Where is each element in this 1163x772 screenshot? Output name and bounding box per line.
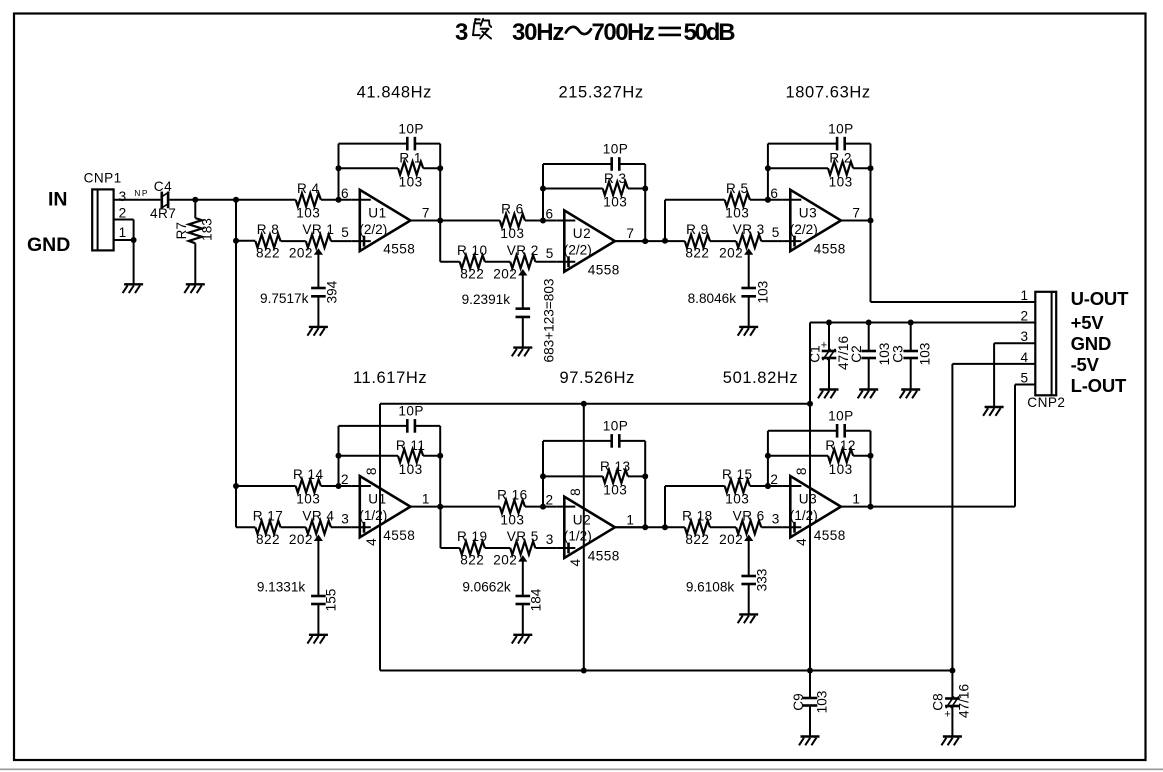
svg-text:4558: 4558 <box>383 242 415 257</box>
svg-text:R 12: R 12 <box>825 438 856 453</box>
svg-text:822: 822 <box>460 266 484 281</box>
svg-text:4: 4 <box>568 559 583 567</box>
svg-text:202: 202 <box>719 532 743 547</box>
svg-text:R 10: R 10 <box>457 243 488 258</box>
svg-text:333: 333 <box>754 569 769 592</box>
svg-text:394: 394 <box>325 280 340 303</box>
svg-text:R 19: R 19 <box>457 529 488 544</box>
svg-text:4558: 4558 <box>814 242 846 257</box>
svg-text:6: 6 <box>546 206 554 221</box>
svg-text:41.848Hz: 41.848Hz <box>357 84 432 102</box>
svg-text:7: 7 <box>422 205 430 220</box>
svg-text:9.6108k: 9.6108k <box>686 580 735 595</box>
svg-text:1: 1 <box>626 512 634 527</box>
svg-text:10P: 10P <box>398 404 424 419</box>
svg-text:9.0662k: 9.0662k <box>462 580 511 595</box>
svg-text:103: 103 <box>918 343 933 366</box>
svg-text:103: 103 <box>603 483 627 498</box>
svg-text:VR 2: VR 2 <box>507 243 539 258</box>
svg-text:50dB: 50dB <box>684 19 736 46</box>
svg-text:103: 103 <box>296 492 320 507</box>
svg-text:822: 822 <box>685 246 709 261</box>
svg-text:U-OUT: U-OUT <box>1071 288 1129 309</box>
svg-text:2: 2 <box>770 472 778 487</box>
svg-text:4558: 4558 <box>588 549 620 564</box>
svg-text:R 3: R 3 <box>604 171 627 186</box>
svg-text:9.2391k: 9.2391k <box>462 292 511 307</box>
svg-text:8: 8 <box>794 468 809 476</box>
svg-text:10P: 10P <box>603 142 629 157</box>
svg-text:4: 4 <box>794 538 809 546</box>
svg-text:R 9: R 9 <box>686 222 709 237</box>
svg-text:U1: U1 <box>368 492 386 507</box>
svg-text:822: 822 <box>685 532 709 547</box>
svg-text:103: 103 <box>725 492 749 507</box>
svg-text:R 15: R 15 <box>722 467 753 482</box>
svg-text:R 4: R 4 <box>297 181 320 196</box>
svg-text:+: + <box>821 339 827 351</box>
svg-text:103: 103 <box>815 691 830 714</box>
svg-text:L-OUT: L-OUT <box>1071 375 1127 396</box>
svg-text:10P: 10P <box>603 419 629 434</box>
svg-text:(1/2): (1/2) <box>790 508 818 523</box>
svg-text:GND: GND <box>27 234 70 256</box>
svg-text:11.617Hz: 11.617Hz <box>353 369 427 387</box>
svg-text:R 16: R 16 <box>497 488 528 503</box>
svg-text:U2: U2 <box>573 226 591 241</box>
svg-text:3: 3 <box>546 532 554 547</box>
svg-text:7: 7 <box>626 226 634 241</box>
svg-text:215.327Hz: 215.327Hz <box>559 84 644 102</box>
svg-text:103: 103 <box>829 174 853 189</box>
svg-text:R 8: R 8 <box>257 222 280 237</box>
svg-text:700Hz: 700Hz <box>592 19 655 46</box>
svg-text:CNP2: CNP2 <box>1027 395 1065 410</box>
svg-text:1: 1 <box>422 492 430 507</box>
svg-text:+: + <box>944 708 950 720</box>
svg-text:103: 103 <box>296 205 320 220</box>
svg-text:183: 183 <box>199 218 214 241</box>
svg-text:1: 1 <box>852 492 860 507</box>
svg-text:1: 1 <box>119 225 127 240</box>
svg-text:184: 184 <box>528 588 543 611</box>
svg-text:103: 103 <box>603 195 627 210</box>
svg-text:6: 6 <box>341 186 349 201</box>
svg-text:8: 8 <box>364 468 379 476</box>
svg-text:VR 1: VR 1 <box>302 222 334 237</box>
svg-text:103: 103 <box>755 281 770 304</box>
svg-text:103: 103 <box>725 205 749 220</box>
svg-text:R 1: R 1 <box>399 151 422 166</box>
svg-text:202: 202 <box>493 266 517 281</box>
svg-text:C3: C3 <box>891 345 906 362</box>
svg-text:C9: C9 <box>791 693 806 710</box>
svg-text:103: 103 <box>500 512 524 527</box>
svg-text:C4: C4 <box>154 179 172 194</box>
svg-text:822: 822 <box>256 532 280 547</box>
svg-text:9.1331k: 9.1331k <box>257 580 306 595</box>
svg-text:(2/2): (2/2) <box>790 222 818 237</box>
svg-text:IN: IN <box>48 188 68 210</box>
svg-text:R7: R7 <box>174 222 189 239</box>
svg-text:683+123=803: 683+123=803 <box>542 279 557 363</box>
svg-text:1807.63Hz: 1807.63Hz <box>786 84 871 102</box>
svg-text:4558: 4558 <box>588 262 620 277</box>
svg-text:10P: 10P <box>828 121 854 136</box>
svg-text:R 13: R 13 <box>600 459 631 474</box>
svg-text:3: 3 <box>1020 329 1028 344</box>
svg-text:(2/2): (2/2) <box>359 222 387 237</box>
svg-text:VR 3: VR 3 <box>733 222 765 237</box>
svg-text:(2/2): (2/2) <box>564 243 592 258</box>
svg-text:R 18: R 18 <box>682 508 713 523</box>
svg-text:3: 3 <box>119 189 127 204</box>
svg-text:47/16: 47/16 <box>957 684 972 718</box>
svg-text:103: 103 <box>500 226 524 241</box>
svg-text:103: 103 <box>399 174 423 189</box>
svg-text:U1: U1 <box>368 205 386 220</box>
svg-text:2: 2 <box>341 472 349 487</box>
svg-text:202: 202 <box>289 532 313 547</box>
svg-text:R 6: R 6 <box>501 201 524 216</box>
svg-text:3: 3 <box>772 511 780 526</box>
svg-text:2: 2 <box>119 205 127 220</box>
svg-text:U2: U2 <box>573 512 591 527</box>
svg-text:NP: NP <box>134 188 149 198</box>
svg-text:U3: U3 <box>799 205 817 220</box>
svg-text:202: 202 <box>719 246 743 261</box>
svg-text:8.8046k: 8.8046k <box>688 291 737 306</box>
svg-text:103: 103 <box>829 462 853 477</box>
svg-text:R 17: R 17 <box>253 508 284 523</box>
svg-text:R 14: R 14 <box>293 467 324 482</box>
svg-text:5: 5 <box>772 225 780 240</box>
svg-text:CNP1: CNP1 <box>84 171 122 186</box>
svg-text:VR 6: VR 6 <box>733 508 765 523</box>
svg-text:4558: 4558 <box>814 528 846 543</box>
svg-text:2: 2 <box>546 493 554 508</box>
svg-text:-5V: -5V <box>1071 354 1100 375</box>
svg-text:C2: C2 <box>849 345 864 362</box>
svg-text:GND: GND <box>1071 333 1112 354</box>
svg-text:155: 155 <box>324 589 339 612</box>
svg-text:30Hz: 30Hz <box>512 19 564 46</box>
svg-text:9.7517k: 9.7517k <box>260 291 309 306</box>
svg-text:2: 2 <box>1020 309 1028 324</box>
svg-text:4R7: 4R7 <box>150 206 176 221</box>
svg-text:7: 7 <box>852 205 860 220</box>
svg-text:3: 3 <box>341 511 349 526</box>
svg-text:4: 4 <box>1020 350 1028 365</box>
svg-text:501.82Hz: 501.82Hz <box>723 369 798 387</box>
svg-text:(1/2): (1/2) <box>359 508 387 523</box>
svg-text:3: 3 <box>455 19 468 46</box>
svg-text:1: 1 <box>1020 288 1028 303</box>
svg-text:5: 5 <box>1020 371 1028 386</box>
svg-text:U3: U3 <box>799 492 817 507</box>
svg-text:4: 4 <box>364 538 379 546</box>
svg-text:C8: C8 <box>931 693 946 710</box>
svg-text:VR 4: VR 4 <box>302 508 334 523</box>
svg-text:6: 6 <box>770 186 778 201</box>
svg-text:10P: 10P <box>398 121 424 136</box>
svg-text:5: 5 <box>341 225 349 240</box>
svg-text:97.526Hz: 97.526Hz <box>560 369 635 387</box>
svg-text:(1/2): (1/2) <box>564 529 592 544</box>
svg-text:+5V: +5V <box>1071 312 1105 333</box>
svg-text:8: 8 <box>568 488 583 496</box>
svg-text:202: 202 <box>289 246 313 261</box>
svg-text:10P: 10P <box>828 409 854 424</box>
svg-text:822: 822 <box>256 246 280 261</box>
svg-text:822: 822 <box>460 553 484 568</box>
svg-text:R 5: R 5 <box>726 181 749 196</box>
svg-text:202: 202 <box>493 553 517 568</box>
svg-text:R 2: R 2 <box>829 151 852 166</box>
svg-text:5: 5 <box>546 246 554 261</box>
svg-text:R 11: R 11 <box>396 438 426 453</box>
svg-text:VR 5: VR 5 <box>507 529 539 544</box>
svg-text:4558: 4558 <box>383 528 415 543</box>
svg-text:103: 103 <box>399 462 423 477</box>
